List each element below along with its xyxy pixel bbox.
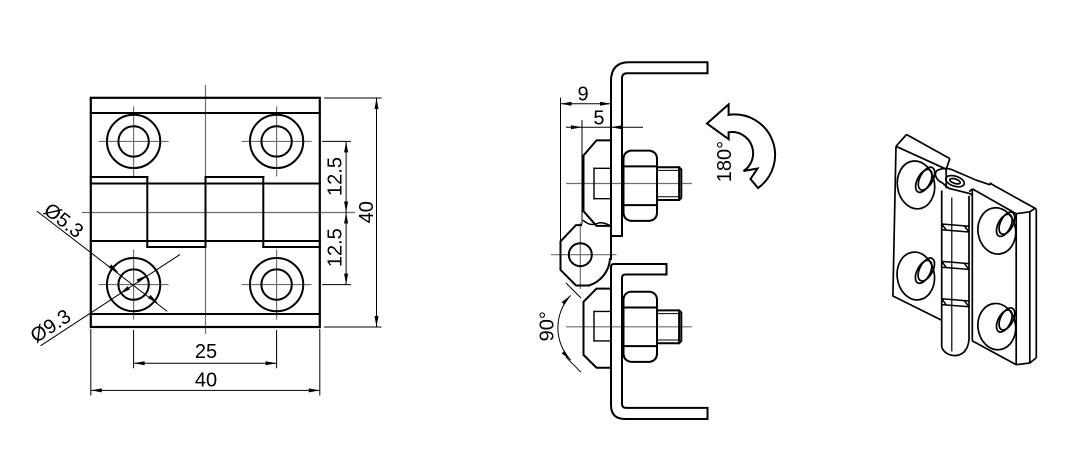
- svg-text:5: 5: [593, 107, 604, 129]
- ext line leaf face: [581, 120, 583, 225]
- 90 deg ticks: [566, 283, 581, 298]
- hole top-right countersink pair: [993, 212, 1015, 239]
- knuckle band bottom segments: [147, 246, 205, 248]
- hole top-right outer: [975, 205, 1019, 256]
- left plate top edge front: [896, 146, 946, 169]
- knuckle division 2: [942, 261, 969, 269]
- middle view texts: [537, 84, 737, 342]
- pivot pin circle: [569, 243, 592, 266]
- ext lines 25 bottom: [133, 330, 135, 368]
- pin top ellipses: [944, 173, 965, 188]
- middle view dims: [558, 98, 643, 373]
- leader 5.3 arrows (pointing down-right at 37.6deg): [109, 264, 120, 274]
- left plate top strip cap: [946, 159, 950, 170]
- left plate top strip back edge: [907, 135, 950, 159]
- middle view arrows: [561, 102, 623, 362]
- dim line 40 right: [376, 98, 378, 327]
- ext lines 40 right: [324, 97, 382, 99]
- svg-text:12.5: 12.5: [324, 228, 346, 267]
- barrel octagon and arc: [561, 225, 589, 285]
- upper leaf with countersink: [584, 140, 612, 226]
- barrel facet line: [951, 198, 953, 352]
- 40 right arrows: [375, 98, 379, 109]
- svg-text:90°: 90°: [537, 311, 559, 341]
- ext line right top hole: [322, 140, 351, 142]
- upper hex nut: [624, 151, 658, 221]
- right plate bottom edge: [972, 341, 1036, 365]
- barrel bottom cap: [942, 339, 969, 356]
- lower hex nut: [624, 292, 658, 362]
- dim line 9: [561, 103, 612, 105]
- right plate front-top edge: [972, 189, 1029, 214]
- ext lines 40 bottom: [90, 329, 92, 396]
- upper stud: [657, 167, 681, 200]
- dim line 5: [566, 126, 643, 128]
- leader line dia 5.3: [37, 211, 167, 311]
- 40 bottom arrows: [91, 388, 102, 392]
- dim line 25: [134, 362, 277, 364]
- dimension thin lines: [37, 98, 382, 396]
- knuckle division 1: [942, 224, 969, 232]
- 180 deg curved arrow symbol: [707, 104, 775, 188]
- ext line right bottom hole: [322, 284, 351, 286]
- 9 arrows: [561, 102, 572, 106]
- upper L-profile panel: [611, 62, 708, 236]
- knuckle top face back boundary: [937, 168, 975, 179]
- svg-text:12.5: 12.5: [324, 157, 346, 196]
- leader 9.3 arrows (along -33.3deg line): [137, 274, 148, 283]
- right plate right edges: [1015, 214, 1017, 365]
- 5 arrows (outside): [571, 125, 582, 129]
- hole top-left outer: [894, 159, 938, 212]
- hole bottom-left: [107, 258, 160, 311]
- barrel left edge: [941, 191, 943, 348]
- 12.5 lower arrows: [344, 213, 348, 224]
- ext line barrel face: [560, 98, 562, 241]
- hole top-left countersink pair: [912, 167, 935, 195]
- knuckle division 3: [942, 299, 969, 307]
- hole bottom-right outer: [975, 301, 1019, 352]
- knuckle band top segments: [91, 176, 148, 178]
- hole top-right: [250, 115, 303, 168]
- upper leaf break squiggle: [584, 221, 612, 227]
- svg-text:25: 25: [195, 341, 217, 363]
- fold wedge top edge: [969, 189, 972, 192]
- lower leaf with countersink: [584, 289, 612, 368]
- left plate top chamfer: [896, 135, 907, 147]
- 12.5 upper arrows: [344, 141, 348, 152]
- hole top-left: [107, 115, 160, 168]
- knuckle verticals: [146, 177, 148, 247]
- svg-text:40: 40: [195, 370, 217, 392]
- front view dimension texts: [27, 157, 378, 391]
- knuckle top face left+front boundary: [935, 170, 972, 196]
- dim line 12.5 upper: [345, 141, 347, 212]
- 90 arc arrows: [562, 294, 572, 305]
- barrel right edge: [968, 196, 970, 339]
- right plate back-top edge with notch: [976, 180, 1035, 208]
- leaf edge through gap: [610, 236, 612, 259]
- top leaf edge line: [91, 112, 320, 114]
- svg-text:180°: 180°: [714, 141, 736, 182]
- lower countersink hole lines: [594, 311, 611, 341]
- centerlines of front view: [82, 85, 355, 334]
- plate outline: [91, 98, 320, 327]
- 90 deg arc: [558, 295, 571, 360]
- hole bottom-left outer: [894, 250, 938, 303]
- 25 arrows: [134, 361, 145, 365]
- hole bottom-right: [250, 258, 303, 311]
- hole bottom-right countersink pair: [993, 307, 1015, 334]
- hole bottom-left countersink pair: [912, 258, 935, 286]
- arrowheads front view: [91, 98, 379, 392]
- svg-text:9: 9: [577, 84, 588, 106]
- svg-text:40: 40: [356, 201, 378, 223]
- right plate fold edge: [971, 190, 973, 341]
- knuckle band full lines: [91, 183, 320, 185]
- leader line dia 9.3: [41, 254, 181, 345]
- left plate front face outline: [893, 146, 946, 320]
- right plate top-right cap: [1030, 208, 1037, 212]
- centerlines middle view: [551, 184, 692, 327]
- dim line 40 bottom: [91, 389, 320, 391]
- bottom leaf edge line: [91, 313, 320, 315]
- lower C-profile panel: [611, 264, 708, 419]
- upper countersink hole lines: [594, 168, 611, 198]
- dim line 12.5 lower: [345, 213, 347, 285]
- lower stud: [657, 310, 681, 343]
